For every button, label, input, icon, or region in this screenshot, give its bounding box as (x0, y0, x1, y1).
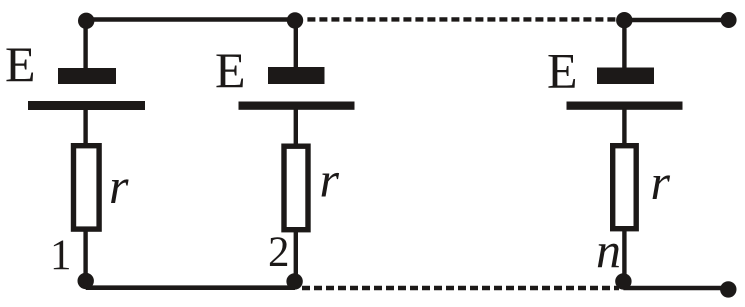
svg-text:E: E (547, 43, 578, 99)
junction: cell 2 top node (287, 12, 303, 28)
junction: node 2 (bottom of cell 2) (286, 273, 302, 289)
battery En long plate (567, 102, 683, 110)
battery E1 short plate (58, 68, 116, 84)
svg-text:r: r (320, 152, 340, 208)
wire: top bus, cell n to output terminal (624, 18, 729, 22)
svg-text:2: 2 (268, 229, 290, 276)
battery En short plate (597, 68, 654, 85)
svg-text:1: 1 (50, 232, 72, 279)
svg-text:E: E (5, 36, 36, 92)
battery E2 long plate (239, 102, 355, 110)
wire: cell 2 top lead (294, 20, 298, 67)
junction: cell 1 top node (78, 13, 94, 29)
battery E2 short plate (268, 67, 325, 84)
svg-text:E: E (215, 42, 246, 98)
resistor r2 (284, 146, 308, 230)
wire: resistor r2 to node 2 (294, 231, 298, 286)
svg-text:r: r (109, 158, 129, 214)
wire: top bus dashed, cell 2 to cell n (307, 17, 619, 21)
wire: cell 1 plate to resistor r1 (83, 110, 87, 146)
terminal: bottom output (720, 281, 736, 297)
junction: node 1 (bottom of cell 1) (78, 273, 94, 289)
battery E1 long plate (28, 101, 145, 110)
junction: cell n top node (616, 12, 632, 28)
wire: cell 1 top lead (83, 20, 87, 68)
wire: resistor r1 to node 1 (83, 231, 87, 286)
resistor r1 (74, 146, 100, 229)
wire: bottom bus, node n to output terminal (623, 286, 728, 291)
junction: node n (bottom of cell n) (615, 273, 631, 289)
svg-text:r: r (651, 154, 671, 210)
terminal: top output (721, 12, 737, 28)
wire: top bus, cell 1 to cell 2 (86, 17, 295, 21)
wire: bottom bus dashed, node 2 to node n (302, 286, 619, 291)
wire: cell n top lead (622, 20, 626, 68)
resistor rn (613, 146, 637, 229)
wire: bottom bus, node 1 to node 2 (86, 285, 295, 290)
wire: resistor rn to node n (622, 231, 626, 286)
svg-text:n: n (596, 222, 621, 278)
wire: cell 2 plate to resistor r2 (294, 110, 298, 147)
wire: cell n plate to resistor rn (622, 110, 626, 147)
